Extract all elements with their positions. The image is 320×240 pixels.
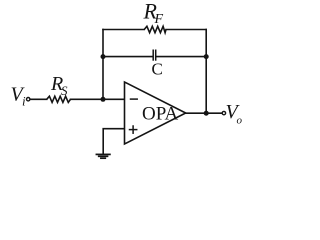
svg-text:o: o <box>237 115 243 127</box>
svg-text:F: F <box>154 12 164 27</box>
svg-text:C: C <box>152 59 163 78</box>
svg-text:S: S <box>61 83 68 98</box>
svg-text:OPA: OPA <box>142 104 179 125</box>
svg-text:i: i <box>22 93 26 108</box>
